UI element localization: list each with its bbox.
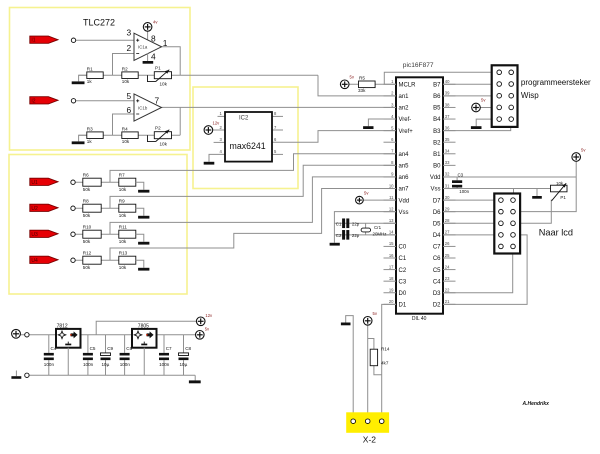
svg-text:MCLR: MCLR	[399, 83, 417, 89]
power symbol 5v (Wisp)	[472, 98, 487, 112]
capacitor C8 10u	[179, 335, 192, 376]
svg-text:pic16F877: pic16F877	[403, 62, 434, 69]
resistor R6	[83, 173, 101, 192]
power symbol +4v (op-amp supply)	[143, 20, 158, 32]
svg-text:20MHz: 20MHz	[373, 232, 387, 237]
svg-text:30: 30	[445, 195, 450, 200]
IC IC2 voltage reference max6241	[225, 112, 272, 162]
svg-text:15: 15	[389, 241, 394, 246]
connector: Naar lcd	[494, 194, 520, 254]
wire: D3 (pin 22) to LCD connector	[443, 254, 513, 293]
wire: feedback network row op-amp 1 / node an1	[79, 74, 318, 76]
wire: IC2 pin 4 to ground	[209, 154, 225, 161]
wire: divider R12/R13 junction to PIC an7	[110, 189, 396, 261]
svg-text:U1: U1	[31, 180, 38, 186]
power symbol 12v (IC2 supply)	[204, 121, 220, 135]
wire: feedback network row op-amp 2	[79, 134, 181, 136]
ground (R11)	[138, 242, 149, 245]
svg-text:10k: 10k	[556, 181, 564, 186]
power symbol 5v (PIC Vdd)	[356, 191, 370, 204]
wire: 5v to Wisp	[480, 107, 491, 109]
power symbol 12v output	[196, 313, 213, 326]
svg-text:29: 29	[445, 206, 450, 211]
wire: R9 to ground	[136, 208, 144, 216]
svg-text:50k: 50k	[83, 265, 91, 270]
capacitor C5 100n	[83, 335, 96, 376]
PIC pin names right	[430, 83, 441, 309]
svg-text:50k: 50k	[83, 187, 91, 192]
svg-text:P1: P1	[560, 195, 566, 200]
wire: IC1b output / node an2 to PIC pin 3	[162, 106, 397, 108]
svg-text:R4: R4	[122, 126, 128, 131]
svg-text:1: 1	[163, 38, 168, 48]
wire: IC2 pin 5 stub	[272, 153, 283, 155]
svg-text:C0: C0	[399, 245, 407, 251]
svg-text:C3: C3	[399, 279, 407, 285]
wire: Vref- (pin 4) to ground	[368, 119, 396, 126]
wire: R1 to ground	[79, 75, 87, 81]
wire: D7 (pin 30) to LCD connector	[443, 199, 494, 201]
svg-text:10: 10	[389, 183, 394, 188]
svg-text:22p: 22p	[352, 233, 360, 238]
wire: 12v branch	[96, 321, 196, 335]
svg-text:max6241: max6241	[230, 141, 266, 151]
capacitor C1 22p	[336, 218, 360, 228]
svg-text:Vdd: Vdd	[430, 175, 441, 181]
svg-text:10k: 10k	[119, 187, 127, 192]
svg-text:10k: 10k	[119, 265, 127, 270]
wire: divider R8/R9 junction to PIC an5	[110, 165, 396, 208]
svg-text:Vss: Vss	[399, 210, 409, 216]
ground (Wisp)	[471, 126, 482, 129]
wire: Vdd (pin 32) 5v rail to LCD area	[443, 176, 576, 178]
wire: B3 (pin 36) to Wisp	[443, 127, 511, 131]
svg-text:21: 21	[445, 299, 450, 304]
wire: OSC2 pin 14 to crystal and C2	[334, 234, 396, 236]
svg-text:R1: R1	[87, 66, 93, 71]
svg-text:Vref-: Vref-	[399, 117, 412, 123]
wire: R13 to ground	[136, 260, 144, 268]
svg-text:100n: 100n	[120, 362, 131, 367]
svg-text:an7: an7	[399, 187, 410, 193]
svg-text:26: 26	[445, 241, 450, 246]
voltage regulator 7805	[132, 323, 157, 347]
ground (input terminal)	[11, 371, 21, 379]
svg-text:38: 38	[445, 102, 450, 107]
PIC pin numbers left 1-20	[389, 79, 394, 304]
svg-text:Vdd: Vdd	[399, 198, 410, 204]
svg-text:10k: 10k	[122, 139, 130, 144]
svg-text:R8: R8	[83, 199, 89, 204]
svg-text:C1: C1	[399, 256, 407, 262]
wire: D1 (pin 20) to X-2 pin 3	[382, 304, 396, 418]
wire: R7 to ground	[136, 182, 144, 190]
svg-text:an5: an5	[399, 164, 410, 170]
op-amp IC1b	[134, 94, 162, 121]
svg-text:Cr1: Cr1	[374, 225, 382, 230]
svg-text:an6: an6	[399, 175, 410, 181]
wire: B6 (pin 39) to Wisp	[443, 95, 492, 97]
capacitor C9 10u	[101, 335, 114, 376]
svg-text:I2: I2	[31, 98, 35, 104]
wire: ground rail	[29, 374, 195, 376]
wire: input U1 through divider	[75, 181, 119, 183]
ground (R3)	[72, 141, 85, 144]
svg-text:10k: 10k	[160, 141, 168, 146]
power symbol 5v (LCD)	[572, 148, 586, 162]
svg-text:D5: D5	[433, 221, 441, 227]
svg-text:8: 8	[151, 33, 156, 43]
wire: IC2 pin 7 stub	[272, 129, 283, 131]
svg-text:C3: C3	[458, 172, 464, 177]
svg-text:10k: 10k	[119, 239, 127, 244]
wire: divider R10/R11 junction to PIC an6	[110, 177, 396, 234]
svg-text:R10: R10	[83, 225, 92, 230]
wire: Wisp ground pin	[476, 119, 492, 126]
svg-text:R12: R12	[83, 251, 92, 256]
wire: IC1a pin 4 to ground	[147, 53, 149, 61]
wire: R11 to ground	[136, 234, 144, 242]
svg-text:Vss: Vss	[430, 187, 440, 193]
wire: 5v vertical to pot and LCD	[520, 161, 576, 211]
wire: input U4 through divider	[75, 259, 119, 261]
net flag I1	[30, 36, 58, 44]
svg-text:14: 14	[389, 230, 394, 235]
potentiometer P1 (LCD contrast 10k)	[551, 181, 568, 201]
svg-text:33: 33	[445, 160, 450, 165]
resistor R1	[87, 66, 103, 84]
svg-text:100n: 100n	[44, 362, 55, 367]
svg-text:R7: R7	[119, 173, 125, 178]
svg-text:C4: C4	[433, 279, 441, 285]
wire: divider R6/R7 junction to PIC an4	[110, 154, 396, 182]
svg-text:50k: 50k	[83, 239, 91, 244]
potentiometer P2	[148, 126, 172, 147]
terminal: input I1	[71, 38, 75, 42]
svg-text:10µ: 10µ	[102, 362, 110, 367]
wire: 5v to X-2 pin 2	[367, 325, 369, 418]
capacitor C6 100n	[120, 335, 133, 376]
svg-text:R5: R5	[359, 75, 365, 80]
wire: B7 (pin 40) to Wisp	[443, 83, 492, 85]
PIC pin stubs right	[443, 84, 456, 304]
power symbol 5v output	[196, 327, 211, 340]
svg-text:10k: 10k	[122, 79, 130, 84]
wire: 7812 output rail	[81, 334, 133, 336]
svg-text:1k: 1k	[87, 139, 93, 144]
svg-text:40: 40	[445, 79, 450, 84]
svg-text:4: 4	[151, 52, 156, 62]
svg-text:Naar lcd: Naar lcd	[539, 228, 573, 238]
wire: input U3 through divider	[75, 233, 119, 235]
highlight box: current-input amplifier section	[10, 8, 191, 151]
svg-text:5: 5	[127, 91, 132, 101]
wire: node an1 to PIC pin 2	[318, 75, 396, 96]
svg-text:100n: 100n	[459, 189, 469, 194]
PIC pin stubs left	[384, 84, 397, 304]
crystal Cr1 20MHz	[361, 223, 386, 236]
svg-text:C5: C5	[433, 268, 441, 274]
wire: X-2 pin 1 to ground	[346, 316, 354, 418]
svg-text:IC1a: IC1a	[138, 45, 148, 50]
capacitor C7 100n	[159, 335, 172, 376]
svg-text:36: 36	[445, 125, 450, 130]
svg-text:12v: 12v	[205, 313, 213, 318]
svg-text:C2: C2	[336, 233, 342, 238]
wire: 5v to Vdd pin 11	[359, 199, 396, 201]
ground (supply rail)	[189, 380, 201, 383]
ground (Vss / crystal caps)	[330, 243, 340, 246]
power symbol: supply input +	[12, 329, 21, 338]
svg-text:17: 17	[389, 264, 394, 269]
svg-text:31: 31	[445, 183, 450, 188]
ground (IC2 pin 4)	[204, 162, 215, 165]
svg-text:R11: R11	[119, 225, 128, 230]
connector X-2	[346, 412, 389, 433]
svg-text:37: 37	[445, 114, 450, 119]
svg-text:D6: D6	[433, 210, 441, 216]
ground (Vref-)	[363, 126, 373, 129]
svg-text:IC1b: IC1b	[138, 105, 148, 110]
wire: IC1b output down to P2	[179, 107, 181, 135]
svg-text:C6: C6	[433, 256, 441, 262]
ground (R7)	[138, 190, 149, 193]
svg-text:10k: 10k	[119, 213, 127, 218]
svg-text:B4: B4	[433, 117, 441, 123]
svg-text:28: 28	[445, 218, 450, 223]
potentiometer P1	[148, 66, 172, 87]
resistor R4	[122, 126, 138, 144]
wire: supply input rail to 7812	[17, 334, 56, 336]
svg-text:R9: R9	[119, 199, 125, 204]
resistor R10	[83, 225, 101, 244]
svg-text:16: 16	[389, 253, 394, 258]
wire: IC2 pin 2 from 12v supply	[208, 129, 225, 131]
svg-text:C8: C8	[185, 346, 191, 351]
svg-text:B5: B5	[433, 106, 441, 112]
wire: IC2 pin 6 output to PIC Vref+ (pin 5)	[272, 131, 396, 143]
wire: Vss (pin 12) to ground	[334, 212, 396, 243]
wire: Vss (pin 31) rail to contrast pot	[443, 188, 551, 190]
wire: D2 (pin 21) to LCD connector	[443, 235, 527, 304]
resistor R2	[122, 66, 138, 84]
wire: OSC1 pin 13 to crystal and C1	[334, 222, 396, 224]
svg-text:10k: 10k	[160, 81, 168, 86]
wire: Vss rail into LCD connector	[513, 189, 515, 194]
svg-text:DIL 40: DIL 40	[412, 316, 427, 322]
svg-text:25: 25	[445, 253, 450, 258]
svg-text:TLC272: TLC272	[83, 18, 115, 28]
PIC pin names left	[399, 83, 417, 309]
wire: inverting input IC1b to R3/R4 junction	[113, 114, 135, 135]
svg-text:7: 7	[155, 96, 160, 106]
svg-text:A.Hendrikx: A.Hendrikx	[522, 401, 550, 407]
svg-text:34: 34	[445, 149, 450, 154]
wire: 7805 output 5v rail	[157, 334, 196, 336]
svg-text:P2: P2	[155, 126, 161, 131]
svg-text:22: 22	[445, 288, 450, 293]
resistor R3	[87, 126, 103, 144]
op-amp IC1a	[134, 33, 162, 60]
svg-text:P1: P1	[155, 66, 161, 71]
wire: inverting input IC1a to R1/R2 junction	[113, 54, 135, 76]
svg-text:Vref+: Vref+	[399, 129, 414, 135]
svg-text:D0: D0	[399, 291, 407, 297]
ground (R1)	[72, 81, 85, 84]
svg-text:an4: an4	[399, 152, 410, 158]
svg-text:D2: D2	[433, 303, 441, 309]
svg-text:B2: B2	[433, 140, 441, 146]
svg-text:10µ: 10µ	[180, 362, 188, 367]
wire: IC1a output to P1	[162, 47, 181, 75]
svg-text:12: 12	[389, 206, 394, 211]
net flag I2	[30, 97, 58, 105]
svg-text:20: 20	[389, 299, 394, 304]
svg-text:7812: 7812	[57, 323, 68, 329]
wire: input I1 to non-inverting input IC1a	[76, 39, 134, 41]
svg-text:U2: U2	[31, 206, 38, 212]
svg-text:programmeersteker: programmeersteker	[521, 78, 591, 87]
PIC pin numbers right 40-21	[445, 79, 450, 304]
power symbol 5v (MCLR pullup)	[340, 75, 354, 89]
svg-text:1k: 1k	[87, 79, 93, 84]
wire: D5 (pin 28) to LCD connector	[443, 222, 494, 224]
svg-text:50k: 50k	[83, 213, 91, 218]
svg-text:R6: R6	[83, 173, 89, 178]
svg-text:C5: C5	[90, 346, 96, 351]
svg-text:C9: C9	[107, 346, 113, 351]
highlight box: voltage divider input section	[9, 155, 187, 295]
wire: input U2 through divider	[75, 207, 119, 209]
capacitor C3 100n	[452, 172, 470, 194]
power symbol 5v (X-2)	[363, 311, 377, 325]
svg-text:6: 6	[127, 105, 132, 115]
wire: input I2 to non-inverting input IC1b	[76, 100, 134, 102]
wire: D6 (pin 29) to LCD connector	[443, 211, 494, 213]
connector: programmeersteker Wisp	[492, 65, 518, 127]
terminal: input U4	[71, 258, 75, 262]
svg-text:2: 2	[127, 43, 132, 53]
svg-text:C4: C4	[51, 346, 57, 351]
ground (IC1a pin 4)	[143, 61, 154, 64]
svg-text:100n: 100n	[83, 362, 94, 367]
net flag U1	[30, 178, 58, 186]
highlight box: voltage reference section	[193, 87, 298, 189]
svg-text:C6: C6	[126, 346, 132, 351]
wire: D4 (pin 27) to LCD connector	[443, 234, 494, 236]
svg-text:U3: U3	[31, 232, 38, 238]
svg-text:an1: an1	[399, 94, 410, 100]
svg-text:18: 18	[389, 276, 394, 281]
svg-text:D3: D3	[433, 291, 441, 297]
svg-text:B1: B1	[433, 152, 441, 158]
PIC microcontroller IC1 pic16F877	[396, 62, 443, 322]
svg-text:100n: 100n	[159, 362, 170, 367]
svg-text:4k7: 4k7	[381, 361, 389, 366]
wire: contrast pot wiper to LCD connector	[520, 200, 551, 224]
resistor R13	[119, 251, 136, 270]
terminal: input I2	[71, 99, 75, 103]
label programmeersteker Wisp	[521, 78, 591, 100]
voltage regulator 7812	[56, 323, 81, 347]
svg-text:an2: an2	[399, 106, 410, 112]
net flag U4	[30, 256, 58, 264]
svg-text:R13: R13	[119, 251, 128, 256]
svg-text:X-2: X-2	[363, 434, 377, 444]
svg-text:3: 3	[127, 28, 132, 38]
svg-text:C7: C7	[433, 245, 441, 251]
terminal: supply input +	[25, 333, 29, 337]
wire: 7812 ground pin	[67, 348, 69, 376]
capacitor C4 100n	[44, 335, 57, 376]
wire: supply to IC1a pin 8	[147, 31, 149, 40]
svg-text:19: 19	[389, 288, 394, 293]
svg-text:R14: R14	[381, 347, 390, 352]
ground (X-2)	[341, 323, 351, 326]
svg-text:U4: U4	[31, 258, 38, 264]
svg-text:22p: 22p	[352, 221, 360, 226]
net flag U2	[30, 204, 58, 212]
svg-text:D7: D7	[433, 198, 441, 204]
resistor R11	[119, 225, 136, 244]
svg-text:32: 32	[445, 172, 450, 177]
terminal: input U1	[71, 180, 75, 184]
ground (R13)	[138, 268, 149, 271]
ground (R9)	[138, 216, 149, 219]
ground (LCD contrast)	[532, 189, 542, 199]
wire: IC2 pin 8 stub	[272, 115, 283, 117]
resistor R14 4k7 pullup	[368, 339, 390, 375]
svg-text:35: 35	[445, 137, 450, 142]
svg-text:24: 24	[445, 264, 450, 269]
svg-text:B6: B6	[433, 94, 441, 100]
resistor R5	[358, 75, 375, 93]
svg-text:C1: C1	[336, 221, 342, 226]
svg-text:11: 11	[389, 195, 394, 200]
resistor R12	[83, 251, 101, 270]
svg-text:13: 13	[389, 218, 394, 223]
wire: MCLR to Wisp connector pin 1	[384, 72, 491, 84]
svg-text:Wisp: Wisp	[521, 91, 539, 100]
svg-text:7805: 7805	[138, 323, 149, 329]
IC2 pin numbers	[220, 111, 278, 154]
svg-text:D4: D4	[433, 233, 441, 239]
capacitor C2 22p	[336, 230, 360, 240]
terminal: supply input -	[25, 373, 29, 377]
svg-text:R3: R3	[87, 126, 93, 131]
net flag U3	[30, 230, 58, 238]
svg-text:B0: B0	[433, 164, 441, 170]
svg-text:27: 27	[445, 230, 450, 235]
svg-text:D1: D1	[399, 303, 407, 309]
wire: ground rail end	[194, 375, 196, 380]
svg-text:I1: I1	[31, 38, 35, 44]
svg-text:33k: 33k	[358, 88, 366, 93]
wire: IC2 pin 3 stub	[214, 141, 225, 143]
svg-text:R2: R2	[122, 66, 128, 71]
terminal: input U2	[71, 206, 75, 210]
resistor R7	[119, 173, 136, 192]
svg-text:IC2: IC2	[239, 116, 249, 122]
svg-text:23: 23	[445, 276, 450, 281]
resistor R9	[119, 199, 136, 218]
wire: 7805 ground pin	[143, 348, 145, 376]
wire: 5v through R5 to MCLR	[345, 83, 396, 85]
terminal: input U3	[71, 232, 75, 236]
svg-text:C7: C7	[166, 346, 172, 351]
wire: IC2 pin 1 stub	[218, 115, 226, 117]
resistor R8	[83, 199, 101, 218]
